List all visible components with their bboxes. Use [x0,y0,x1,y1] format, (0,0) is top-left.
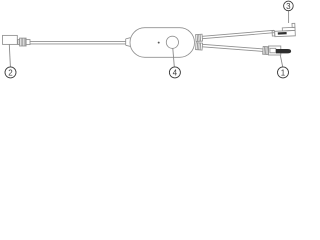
leader line label 1 [280,55,282,67]
label circle 3 [284,1,294,11]
connector 1 dark tip [276,49,291,53]
plug ribbed barrel [20,38,27,46]
connector 3 (top right plug) [272,23,296,36]
svg-text:1: 1 [281,68,286,77]
svg-text:3: 3 [286,2,291,11]
label circle 1 [278,67,289,78]
LED dot [158,42,160,44]
svg-text:4: 4 [173,68,178,77]
connector 1 strain relief [263,46,269,54]
label circle 2 [5,67,16,78]
plug neck [26,40,30,45]
label circle 4 [169,67,180,78]
svg-text:2: 2 [8,68,13,77]
connector 1 body [269,46,281,55]
leader line label 4 [173,48,175,66]
push button [166,36,178,48]
top cable to connector 3 [202,30,274,38]
cable bell at body entry [126,38,131,47]
DC plug body (part 2) [3,35,18,44]
bottom exit strain relief [196,43,203,50]
leader line label 3 [288,11,290,23]
barrel rib lines [21,38,25,46]
connector 1 inner window [270,48,276,53]
bottom cable to connector 1 [202,44,263,51]
control body oval (part 4) [130,28,195,58]
main cable wire (left) [30,41,126,44]
leader line label 2 [9,45,10,67]
plug collar [18,40,20,45]
top exit strain relief [196,34,203,41]
